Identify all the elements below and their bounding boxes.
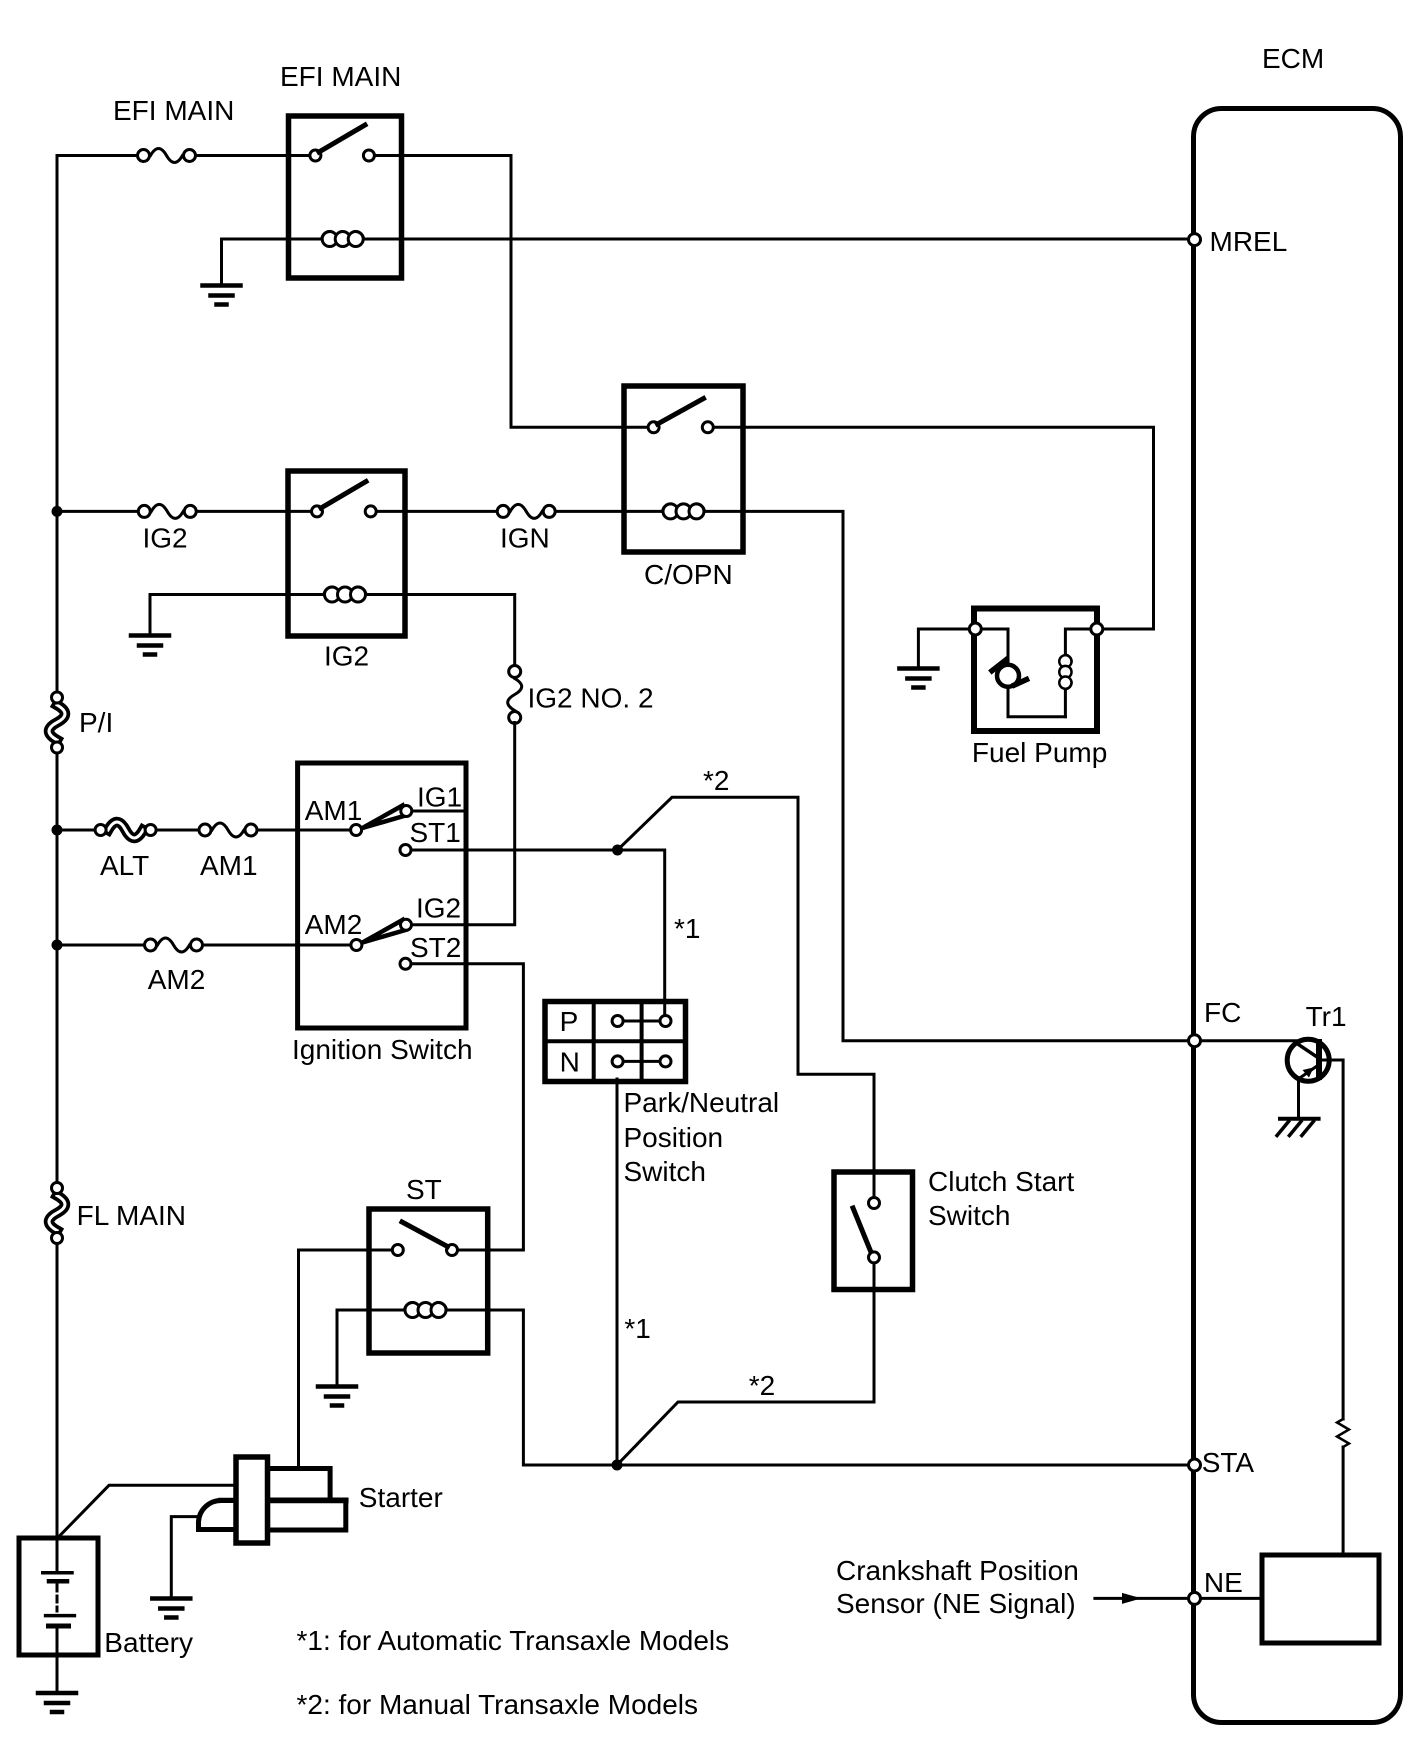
svg-text:P: P <box>560 1006 579 1037</box>
wire ST relay coil to STA terminal <box>426 1310 1189 1465</box>
ignition switch contacts <box>351 806 412 970</box>
wire EFI relay output to C/OPN <box>369 156 654 428</box>
svg-text:Starter: Starter <box>359 1482 443 1513</box>
svg-text:ST: ST <box>406 1174 442 1205</box>
junction AM1 feed <box>52 825 63 836</box>
relay IG2 box <box>288 471 405 636</box>
wire battery to starter <box>58 1485 236 1537</box>
svg-text:FC: FC <box>1204 997 1241 1028</box>
relay IG2 coil <box>324 587 366 602</box>
label Park/Neutral Position Switch <box>624 1087 780 1187</box>
fusible link ALT <box>95 822 156 838</box>
svg-text:*1: *1 <box>624 1313 650 1344</box>
park/neutral P row contacts <box>612 1016 671 1027</box>
svg-text:Sensor (NE Signal): Sensor (NE Signal) <box>836 1588 1076 1619</box>
svg-text:IG2: IG2 <box>324 641 369 672</box>
svg-text:ST2: ST2 <box>410 932 461 963</box>
svg-text:MREL: MREL <box>1210 226 1288 257</box>
svg-text:IG1: IG1 <box>417 782 462 813</box>
wire EFI MAIN fuse to relay <box>190 154 315 157</box>
park/neutral position switch box <box>545 1002 686 1082</box>
svg-text:Battery: Battery <box>104 1627 193 1658</box>
wire ST relay coil to ground <box>337 1310 425 1384</box>
label Crankshaft Position Sensor <box>836 1555 1079 1619</box>
ground Tr1 chassis <box>1277 1119 1319 1136</box>
svg-text:IG2: IG2 <box>416 893 461 924</box>
relay EFI MAIN switch contacts <box>310 150 375 161</box>
fuel pump motor <box>992 660 1027 687</box>
ignition switch box <box>298 763 466 1028</box>
relay C/OPN switch contacts <box>648 422 713 433</box>
svg-text:*2: *2 <box>703 765 729 796</box>
relay EFI MAIN switch blade <box>319 125 365 152</box>
wire left supply bus <box>56 156 59 1539</box>
wire ST relay to starter <box>299 1250 392 1469</box>
ground battery <box>38 1693 76 1712</box>
wire AM2 fuse to ignition switch <box>204 944 356 947</box>
fuse IG2 NO.2 <box>508 666 522 724</box>
svg-text:*1: for Automatic Transaxle Mo: *1: for Automatic Transaxle Models <box>297 1625 730 1656</box>
relay C/OPN box <box>624 386 743 552</box>
ground EFI MAIN relay <box>203 286 241 305</box>
fuse AM1 <box>199 823 257 837</box>
svg-text:NE: NE <box>1204 1567 1243 1598</box>
wire IG2 NO.2 fuse to ignition switch IG2 <box>412 723 515 925</box>
fuse AM2 <box>145 938 203 952</box>
relay ST switch contacts <box>392 1245 457 1256</box>
svg-text:STA: STA <box>1202 1447 1255 1478</box>
wire AM1 fuse to ignition switch <box>258 829 357 832</box>
relay IG2 switch contacts <box>312 506 377 517</box>
svg-text:EFI MAIN: EFI MAIN <box>280 61 401 92</box>
clutch start switch contacts <box>869 1198 880 1263</box>
wire ST1 to park/neutral switch <box>412 850 665 1021</box>
terminal FC <box>1189 1035 1201 1047</box>
wire fuel pump coil branch <box>1065 629 1096 717</box>
svg-text:P/I: P/I <box>79 707 113 738</box>
park/neutral N row contacts <box>612 1056 671 1067</box>
svg-text:*1: *1 <box>674 913 700 944</box>
svg-text:Clutch Start: Clutch Start <box>928 1166 1074 1197</box>
fuel pump box <box>974 609 1097 732</box>
battery cell plates <box>43 1538 75 1691</box>
wire NE terminal to box <box>1201 1597 1263 1600</box>
fuel pump coil <box>1059 655 1071 689</box>
fuse IGN <box>497 504 555 518</box>
svg-text:*2: for Manual Transaxle Model: *2: for Manual Transaxle Models <box>297 1689 699 1720</box>
transistor Tr1 <box>1287 1039 1329 1081</box>
clutch start switch box <box>834 1172 913 1290</box>
wire Tr1 emitter to ground <box>1297 1081 1300 1118</box>
svg-text:IGN: IGN <box>500 523 550 554</box>
svg-text:Switch: Switch <box>624 1156 706 1187</box>
wire ALT link to AM1 fuse <box>158 829 207 832</box>
svg-text:ECM: ECM <box>1262 43 1324 74</box>
junction AM2 feed <box>52 940 63 951</box>
wire ST2 to ST relay <box>412 964 524 1250</box>
wire IG2 relay to IGN fuse <box>371 510 504 513</box>
fuel pump connectors <box>969 623 1103 635</box>
wire IGN fuse to C/OPN coil and FC terminal <box>549 511 1188 1040</box>
svg-text:EFI MAIN: EFI MAIN <box>113 95 234 126</box>
svg-text:Crankshaft Position: Crankshaft Position <box>836 1555 1079 1586</box>
starter body lower <box>268 1500 346 1530</box>
wire *2 branch to clutch switch <box>618 797 875 1203</box>
resistor in ECM <box>1337 1419 1349 1447</box>
wire IG2 fuse feed <box>57 510 145 513</box>
wire battery feed to EFI MAIN fuse <box>57 154 143 157</box>
NE signal box <box>1262 1555 1379 1643</box>
wire IG1 stub <box>412 810 466 813</box>
fusible link P/I <box>49 692 65 753</box>
svg-text:Tr1: Tr1 <box>1306 1001 1347 1032</box>
starter solenoid <box>236 1457 268 1543</box>
svg-text:*2: *2 <box>749 1370 775 1401</box>
starter body shared edge <box>221 1498 346 1504</box>
park/neutral switch grid <box>545 1002 686 1082</box>
junction STA <box>612 1460 623 1471</box>
svg-text:IG2 NO. 2: IG2 NO. 2 <box>528 683 654 714</box>
fusible link FL MAIN <box>49 1183 65 1244</box>
svg-text:FL MAIN: FL MAIN <box>77 1200 186 1231</box>
relay EFI MAIN coil <box>322 232 364 247</box>
fuse IG2 <box>138 504 196 518</box>
svg-text:AM2: AM2 <box>305 909 363 940</box>
relay C/OPN coil <box>663 504 705 519</box>
label Clutch Start Switch <box>928 1166 1074 1231</box>
ECM box <box>1194 109 1401 1723</box>
battery box <box>19 1538 98 1655</box>
relay C/OPN switch blade <box>658 399 704 425</box>
wire FC to Tr1 base <box>1201 1039 1298 1042</box>
svg-text:Fuel Pump: Fuel Pump <box>972 737 1107 768</box>
relay EFI MAIN box <box>289 116 402 278</box>
svg-text:N: N <box>560 1047 580 1078</box>
clutch start switch blade <box>853 1208 871 1251</box>
starter body upper <box>268 1469 331 1501</box>
terminal MREL <box>1189 234 1201 246</box>
ground starter <box>152 1599 190 1618</box>
wire fuel pump ground <box>918 629 969 667</box>
svg-text:Park/Neutral: Park/Neutral <box>624 1087 780 1118</box>
wire IG2 fuse to IG2 relay <box>190 510 317 513</box>
ignition switch AM1-IG1 blade <box>363 806 406 829</box>
svg-text:Switch: Switch <box>928 1200 1010 1231</box>
svg-text:ST1: ST1 <box>410 817 461 848</box>
relay ST switch blade <box>402 1222 448 1247</box>
svg-text:AM1: AM1 <box>305 795 363 826</box>
svg-text:C/OPN: C/OPN <box>644 559 733 590</box>
svg-text:ALT: ALT <box>100 850 149 881</box>
relay ST coil <box>405 1303 447 1318</box>
svg-text:AM1: AM1 <box>200 850 258 881</box>
junction ST1 branch <box>612 845 623 856</box>
fuse EFI MAIN <box>138 149 196 163</box>
starter nose <box>199 1501 237 1530</box>
svg-text:AM2: AM2 <box>148 964 206 995</box>
wire starter ground <box>171 1517 206 1598</box>
wire park/neutral to STA junction <box>616 1079 619 1465</box>
wire AM2 feed <box>57 944 151 947</box>
wire ALT link feed <box>57 829 103 832</box>
svg-text:Position: Position <box>624 1122 724 1153</box>
ground fuel pump <box>899 669 937 688</box>
ground IG2 relay <box>131 636 169 655</box>
wire IG2 relay coil to IG2 NO.2 fuse <box>345 595 515 673</box>
terminal NE <box>1189 1592 1201 1604</box>
terminal STA <box>1189 1459 1201 1471</box>
wire Tr1 collector to NE box <box>1319 1060 1343 1555</box>
wire fuel pump motor branch <box>975 629 1065 717</box>
junction IG2 feed <box>52 506 63 517</box>
wire C/OPN output to fuel pump <box>708 427 1154 629</box>
relay IG2 switch blade <box>321 482 366 509</box>
relay ST box <box>369 1209 488 1353</box>
svg-text:IG2: IG2 <box>143 523 188 554</box>
ignition switch AM2-IG2 blade <box>363 920 406 943</box>
ground ST relay <box>318 1387 356 1406</box>
arrow crankshaft sensor <box>1095 1593 1187 1604</box>
wire IG2 relay coil to ground <box>150 595 345 635</box>
svg-text:Ignition Switch: Ignition Switch <box>292 1034 473 1065</box>
wire MREL (EFI relay coil to ECM) <box>222 239 1189 283</box>
wire clutch switch to STA junction <box>617 1264 874 1466</box>
